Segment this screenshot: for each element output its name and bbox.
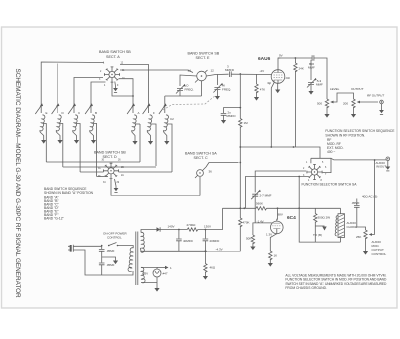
wire tank to coupling cap [217, 73, 228, 75]
wire switchA right to coil L6 [120, 65, 149, 114]
svg-text:C2: C2 [170, 117, 174, 121]
dashed shield [163, 95, 216, 110]
svg-text:CHOKE: CHOKE [347, 225, 358, 229]
svg-text:2A: 2A [121, 174, 124, 177]
coil L7 [164, 115, 169, 132]
svg-text:SECT. C: SECT. C [194, 156, 208, 160]
svg-text:.05MF: .05MF [351, 201, 360, 205]
bus wire coil L3/L7 to sect D [80, 171, 103, 173]
HV secondary top to rectifier [141, 230, 157, 233]
svg-text:.05MF: .05MF [106, 263, 115, 267]
B+ line y208 [223, 207, 257, 209]
bus grid y170 [255, 171, 306, 192]
svg-text:24K: 24K [299, 67, 304, 71]
svg-text:400 ~: 400 ~ [327, 150, 335, 154]
screen resistor 24K [295, 57, 297, 59]
rotary band switch sect A [104, 67, 119, 82]
line cap 1 [76, 245, 102, 248]
resistor 300 ohm to B [314, 208, 316, 213]
wire cap to 6AU6 grid [231, 73, 271, 75]
rotor wire sect D down and right (common) [110, 179, 112, 196]
bracket [311, 158, 331, 172]
rotary band switch sect D [103, 163, 118, 178]
svg-text:-2V: -2V [260, 69, 265, 73]
wire sect E left to LO FREQ trimmer [180, 75, 197, 86]
wire sect C to osc grid line [206, 163, 239, 168]
coil L2 tap [59, 124, 63, 168]
svg-text:500: 500 [317, 102, 322, 106]
svg-text:98V: 98V [278, 213, 283, 217]
resistor 470K bleeder [239, 208, 241, 218]
wire coil L2 top (faint) [57, 64, 59, 114]
svg-text:SECT. A: SECT. A [106, 55, 120, 59]
bus B+ screen y147 [240, 147, 320, 158]
trimmer capacitor LO FREQ [176, 84, 186, 94]
wire switchA left to coil L3 [74, 78, 103, 114]
rotor wire sect A down to coil L5 line [112, 83, 133, 97]
coil L7 top wire to osc tank line [164, 96, 166, 113]
plate wire to 9V node [278, 58, 280, 70]
svg-text:F: F [153, 111, 155, 115]
filter cap 2 20MFD [204, 230, 206, 239]
svg-text:2-7 MMF: 2-7 MMF [260, 194, 272, 198]
coil L3 [73, 115, 78, 132]
svg-text:6.3V: 6.3V [142, 272, 148, 276]
coupling capacitor 3 MMF [229, 71, 231, 77]
coil L2 [56, 115, 61, 132]
svg-text:CONTROL: CONTROL [372, 252, 387, 256]
grid leak 50K [253, 223, 255, 235]
series cap 800 MMF in output line [312, 55, 314, 61]
power transformer T1 [128, 248, 133, 272]
ground below sect D [115, 179, 117, 186]
heater arrow [157, 267, 165, 269]
svg-text:SHOWN IN RF POSITION.: SHOWN IN RF POSITION. [325, 133, 365, 137]
svg-text:40MFD: 40MFD [183, 239, 194, 243]
svg-text:SECT. E: SECT. E [196, 56, 210, 60]
svg-text:LEVEL: LEVEL [330, 87, 340, 91]
svg-text:1M: 1M [244, 121, 249, 125]
svg-text:MMF: MMF [316, 83, 323, 87]
bus y176.5 [246, 177, 309, 209]
coil L6 [147, 115, 152, 132]
pot 25K audio output control [364, 230, 367, 239]
wire sect C rotor down to common [199, 177, 201, 196]
sect D terminal pin numbers [98, 160, 124, 185]
coil L4 [90, 115, 95, 132]
filter cap 1 40MFD [178, 230, 180, 239]
svg-text:12: 12 [211, 69, 215, 73]
wire sect E right to HI FREQ node [206, 75, 217, 86]
resistor 2700 ohm [187, 228, 198, 231]
caps .05MF line filters [101, 246, 103, 250]
bus wire coil L4 to sect D lower [97, 176, 108, 178]
svg-text:OUTPUT: OUTPUT [351, 87, 365, 91]
wire switchA right to sect E terminal 1A [120, 70, 193, 73]
svg-text:BAND SWITCH SB: BAND SWITCH SB [94, 151, 126, 155]
return wire function switch to audio network bottom [299, 177, 315, 243]
grid resistor 47K [256, 74, 258, 84]
coil L1 tap [43, 124, 46, 163]
coil L5 tap [135, 123, 140, 125]
svg-text:FREQ.: FREQ. [185, 88, 194, 92]
trimmer 2-7 MMF feedback [251, 190, 261, 200]
svg-text:130V: 130V [204, 225, 211, 229]
svg-text:SCHEMATIC DIAGRAM—MODEL G-30 A: SCHEMATIC DIAGRAM—MODEL G-30 AND G-30PC … [14, 69, 21, 299]
junction node on bus y176.5 [298, 176, 300, 178]
svg-text:3C: 3C [98, 168, 101, 170]
svg-text:200: 200 [343, 102, 348, 106]
bias resistor 46 ohm [204, 251, 206, 263]
grid shunt cap 2 MMFD [224, 74, 241, 113]
B- bus [140, 248, 207, 251]
svg-text:E: E [46, 111, 48, 115]
svg-text:560K: 560K [256, 202, 263, 206]
svg-text:FUNCTION SELECTOR SWITCH SEQUE: FUNCTION SELECTOR SWITCH SEQUENCE [325, 129, 395, 133]
svg-text:36: 36 [209, 170, 213, 174]
coil L7 tap [167, 124, 172, 172]
rotary band switch sect C [197, 170, 204, 177]
svg-text:.05MF: .05MF [106, 249, 115, 253]
coil L6 tap [150, 124, 156, 166]
sect A terminal pin numbers [99, 63, 125, 88]
svg-text:B: B [95, 111, 97, 115]
svg-text:A: A [138, 111, 140, 115]
svg-text:9V: 9V [279, 54, 283, 58]
rotary band switch sect E [197, 71, 207, 81]
top output line [278, 57, 312, 59]
svg-text:300Ω 2W: 300Ω 2W [318, 216, 331, 220]
svg-text:BAND SWITCH SA: BAND SWITCH SA [185, 152, 217, 156]
svg-text:-4.3V: -4.3V [216, 248, 223, 252]
wire switchA lower-right to coil L5 [119, 79, 134, 113]
suppressor wire down to bus [271, 83, 274, 147]
svg-text:CONTROL: CONTROL [107, 236, 122, 240]
ground below HI FREQ [216, 90, 218, 94]
trimmer capacitor HI FREQ [213, 83, 223, 93]
resistor 1M in osc line [239, 108, 241, 119]
jack AUDIO IN/OUT [386, 157, 390, 161]
coil L3 tap [76, 124, 80, 173]
svg-text:#47: #47 [163, 272, 168, 276]
svg-text:240: 240 [286, 76, 291, 80]
svg-text:SECT. D: SECT. D [103, 155, 117, 159]
pot LEVEL 500 [325, 99, 328, 108]
svg-text:BAND SWITCH SB: BAND SWITCH SB [99, 50, 131, 54]
svg-text:FREQ.: FREQ. [222, 88, 231, 92]
svg-text:140V: 140V [168, 225, 175, 229]
svg-text:470K: 470K [243, 221, 250, 225]
svg-text:47K: 47K [260, 88, 265, 92]
ground between caps [102, 257, 116, 259]
svg-text:MMFD: MMFD [225, 68, 235, 72]
svg-text:1A: 1A [188, 69, 192, 73]
diode rectifier [157, 227, 161, 231]
svg-text:1K: 1K [274, 254, 278, 258]
svg-text:BAND SWITCH SB: BAND SWITCH SB [188, 52, 220, 56]
audio choke [340, 208, 342, 213]
bus wire coil L1/L5 to sect D [46, 124, 140, 162]
svg-text:FUNCTION SELECTOR SWITCH SA: FUNCTION SELECTOR SWITCH SA [302, 182, 358, 186]
svg-text:46Ω: 46Ω [210, 266, 216, 270]
svg-text:2700Ω: 2700Ω [187, 223, 197, 227]
coil L4 tap [93, 124, 97, 177]
bus wire coil L2/L6 to sect D [63, 166, 156, 168]
svg-text:40Ω AC (B): 40Ω AC (B) [362, 195, 377, 199]
function selector rotary [307, 164, 322, 179]
wire switchA upper-left to coil L1 [41, 62, 104, 113]
svg-text:BAND "G-12": BAND "G-12" [44, 216, 65, 220]
ground below sect A [114, 82, 117, 87]
svg-text:6C4: 6C4 [287, 215, 296, 221]
wire LO FREQ bottom to tank bottom line [165, 91, 202, 96]
svg-text:0V: 0V [268, 81, 272, 85]
svg-text:IN/OUT: IN/OUT [376, 165, 386, 169]
svg-text:25K: 25K [356, 235, 361, 239]
junction grid node [239, 73, 241, 75]
pot OUTPUT 200 [352, 99, 355, 108]
coil L1 [40, 115, 45, 132]
cathode ground [277, 83, 279, 87]
AC plug [70, 245, 72, 252]
svg-text:1.3V: 1.3V [266, 233, 272, 237]
svg-text:50K: 50K [246, 237, 251, 241]
coil L5 [132, 115, 137, 132]
svg-text:TO (B): TO (B) [313, 233, 322, 237]
function switch terminal pin numbers [303, 162, 327, 182]
svg-text:FROM CHASSIS GROUND.: FROM CHASSIS GROUND. [285, 286, 327, 290]
svg-text:20MFD: 20MFD [210, 239, 221, 243]
svg-text:MMFD: MMFD [227, 114, 237, 118]
cathode resistor 1K [270, 234, 277, 251]
trimmer to ground .5-3 MMF [310, 60, 312, 80]
svg-text:MMF: MMF [308, 66, 315, 70]
svg-text:RF OUTPUT: RF OUTPUT [367, 94, 385, 98]
wire switchA lower-left to coil L4 [91, 82, 106, 113]
svg-text:6AU6: 6AU6 [258, 56, 271, 62]
wire sect E rotor bottom [201, 81, 203, 96]
